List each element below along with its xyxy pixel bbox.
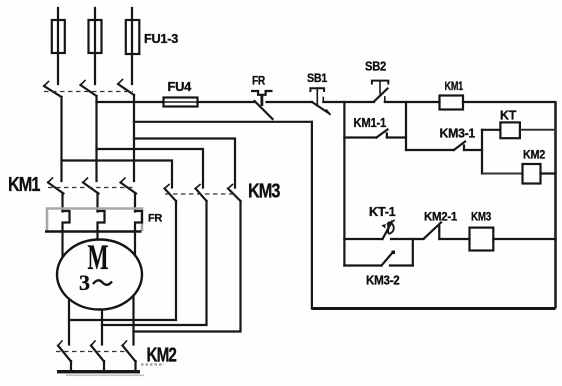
wire L3 return line	[134, 121, 312, 123]
label SB1	[307, 71, 328, 85]
wire FU4 to FR contact	[198, 101, 256, 103]
switch QS pole 2	[81, 81, 97, 97]
svg-text:SB1: SB1	[307, 71, 328, 85]
wire phase1 QS to KM1	[60, 97, 62, 181]
label KM3-1	[440, 126, 476, 141]
label KM1 main contactor	[8, 174, 40, 196]
wire motor bottom lead W2	[132, 288, 134, 345]
wire L1 feed to KM3 pole1	[62, 161, 173, 188]
svg-text:KM3-2: KM3-2	[366, 273, 400, 288]
wire KM1 pole2 to FR	[96, 193, 98, 212]
thermal relay FR heater element 1	[63, 211, 70, 231]
wire motor lead3 to KM3 pole3 bottom	[134, 201, 241, 332]
wire FR to motor lead 1	[61, 231, 63, 262]
motor label 3-phase	[79, 270, 112, 295]
svg-text:FR: FR	[148, 213, 162, 225]
contact KT-1 timed normally-open	[381, 221, 394, 240]
label KM3 main contactor	[248, 181, 280, 203]
wire KM3 coil to right rail	[493, 238, 555, 240]
wire FR contact to SB1	[267, 101, 313, 103]
label KM2-1	[424, 210, 458, 224]
svg-text:3: 3	[79, 270, 90, 295]
label KM2 coil	[523, 148, 546, 162]
KM2 star shorting bar	[57, 365, 164, 377]
svg-text:KM2-1: KM2-1	[424, 210, 458, 224]
contactor KM3 pole 1	[165, 185, 177, 202]
wire left rail	[311, 122, 313, 309]
motor M circle	[57, 240, 142, 310]
motor letter M	[88, 237, 109, 277]
contactor KM3 pole 2	[196, 185, 207, 202]
switch QS pole 1	[44, 82, 62, 98]
switch QS pole 3	[118, 80, 134, 96]
contactor KM2 pole 2	[91, 341, 104, 362]
wire KT coil to right rail	[520, 129, 556, 131]
wire motor bottom lead V2	[101, 300, 103, 345]
svg-text:KM3: KM3	[248, 181, 280, 203]
label KM1-1	[354, 115, 387, 130]
svg-text:SB2: SB2	[365, 59, 386, 74]
wire phase2 QS to KM1	[95, 96, 97, 181]
wire L3 feed to KM3 pole3	[134, 139, 235, 188]
label FU4	[168, 79, 193, 94]
label KM3 coil	[471, 210, 492, 224]
wire KM2 pole1 bottom	[70, 361, 72, 371]
fuse FU4	[164, 98, 198, 107]
contactor KM1 pole 3	[121, 178, 137, 194]
thermal relay FR heater element 3	[135, 211, 142, 231]
wire KM2 pole3 bottom	[134, 361, 136, 371]
wire KM2 coil to right rail	[541, 172, 556, 174]
wire to KT coil	[482, 129, 500, 131]
contact KM2-1 normally-closed	[424, 223, 470, 240]
wire KM1 pole3 to FR	[134, 193, 136, 212]
label FR heater	[148, 213, 162, 225]
wire L3 supply	[131, 8, 133, 84]
wire SB1 to SB2	[323, 101, 374, 103]
svg-text:KT: KT	[500, 108, 516, 123]
label SB2	[365, 59, 386, 74]
wire KM1 pole1 to FR	[61, 193, 63, 212]
contact KM3-1 normally-closed	[406, 142, 482, 151]
wire phase3 QS to KM1	[133, 95, 135, 181]
svg-text:FU1-3: FU1-3	[144, 31, 178, 46]
button SB2 start normally-open	[372, 81, 388, 102]
label KM1 coil	[445, 79, 464, 93]
fuse FU2	[89, 20, 102, 53]
button SB1 stop normally-closed	[310, 88, 330, 114]
svg-text:KT-1: KT-1	[369, 204, 396, 219]
wire KT-1 to KM2-1	[391, 238, 424, 240]
svg-text:KM3-1: KM3-1	[440, 126, 476, 141]
contact KM1-1 self-hold	[344, 130, 406, 138]
wire to KM2 coil	[482, 173, 523, 175]
label KM3-2	[366, 273, 400, 288]
svg-text:FU4: FU4	[168, 79, 193, 94]
coil KT timer	[500, 122, 520, 138]
wire SB2 to KM1 coil	[385, 101, 440, 103]
wire L2 feed to KM3 pole2	[97, 149, 204, 188]
contactor KM2 pole 3	[123, 341, 136, 362]
coil KM2	[523, 164, 541, 184]
svg-text:KM2: KM2	[147, 345, 177, 367]
contactor KM1 pole 1	[48, 178, 64, 194]
svg-text:KM1-1: KM1-1	[354, 115, 387, 130]
wire FR to motor lead 3	[134, 231, 136, 262]
fuse FU1	[52, 20, 65, 53]
wire branch down to KM1-1	[405, 102, 407, 150]
contactor KM2 linkage dashed	[56, 351, 128, 353]
thermal relay FR housing box	[47, 209, 142, 232]
switch QS linkage dashed	[44, 91, 133, 93]
wire KM3-2 up to KT-1 row	[412, 239, 414, 266]
label FU1-3	[144, 31, 178, 46]
contactor KM1 pole 2	[83, 178, 99, 194]
svg-text:KM1: KM1	[8, 174, 40, 196]
svg-text:KM3: KM3	[471, 210, 492, 224]
wire FR bottom bus	[45, 230, 142, 233]
wire motor lead2 to KM3 pole2 bottom	[102, 201, 207, 325]
svg-text:KM1: KM1	[445, 79, 464, 93]
label KT-1	[369, 204, 396, 219]
thermal relay FR heater element 2	[98, 211, 105, 231]
svg-text:KM2: KM2	[523, 148, 546, 162]
contactor KM3 linkage dashed	[165, 193, 236, 195]
svg-text:M: M	[88, 237, 109, 277]
coil KM1	[440, 96, 464, 110]
wire motor bottom lead U2	[68, 290, 70, 345]
wire KT-1 row from node	[344, 238, 382, 240]
contact FR normally-closed	[251, 91, 273, 119]
contactor KM2 pole 1	[58, 341, 71, 362]
wire right rail	[554, 102, 557, 309]
wire KT KM2 branch vertical	[481, 130, 483, 174]
svg-text:FR: FR	[252, 74, 266, 88]
coil KM3	[470, 228, 494, 251]
wire motor lead1 to KM3 pole1 bottom	[69, 201, 176, 320]
label KM2 star contactor	[147, 345, 177, 367]
contactor KM1 linkage dashed	[48, 187, 133, 189]
contact KM3-2 bypass normally-open	[344, 251, 412, 266]
label FR contact	[252, 74, 266, 88]
wire FR to motor lead 2	[96, 231, 98, 244]
wire control supply tap from L2	[97, 101, 164, 103]
wire L1 supply	[57, 8, 59, 84]
node junction after SB1	[343, 102, 345, 266]
wire L2 supply	[94, 8, 96, 84]
wire bottom rail	[312, 307, 556, 310]
wire KM2 pole2 bottom	[103, 361, 105, 371]
wire KM1 coil to right rail	[463, 101, 556, 103]
label KT	[500, 108, 516, 123]
contactor KM3 pole 3	[228, 185, 241, 202]
fuse FU3	[126, 20, 140, 54]
